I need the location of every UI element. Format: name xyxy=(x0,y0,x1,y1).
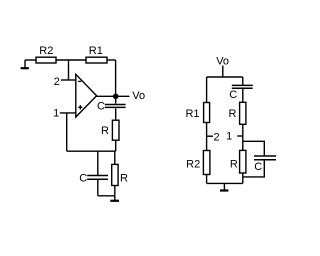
wire xyxy=(114,151,116,164)
op-amp U1 xyxy=(76,74,97,117)
wire xyxy=(222,66,224,78)
wire xyxy=(68,59,70,80)
svg-text:Vo: Vo xyxy=(132,90,145,102)
svg-text:R2: R2 xyxy=(39,45,53,57)
wire xyxy=(206,123,208,151)
node Vo junction xyxy=(113,94,119,100)
svg-text:C: C xyxy=(254,161,262,173)
wire xyxy=(242,77,244,85)
wire xyxy=(207,76,243,78)
resistor R1 xyxy=(204,103,210,123)
node 1 xyxy=(237,135,243,137)
resistor R1 xyxy=(86,57,107,63)
svg-text:C: C xyxy=(79,173,87,185)
wire xyxy=(98,195,115,197)
capacitor C xyxy=(232,85,253,88)
wire xyxy=(61,79,76,81)
wire xyxy=(115,96,117,103)
wire xyxy=(115,140,117,151)
svg-text:R1: R1 xyxy=(185,108,199,120)
wire xyxy=(67,150,116,152)
ground xyxy=(220,183,228,190)
wire xyxy=(242,89,244,103)
wire xyxy=(97,151,99,175)
svg-text:R: R xyxy=(120,172,128,184)
resistor R2 xyxy=(203,151,210,175)
wire xyxy=(107,59,116,61)
wire xyxy=(243,141,264,155)
wire xyxy=(207,182,243,184)
resistor R xyxy=(112,164,118,185)
wire xyxy=(206,77,208,103)
svg-text:C: C xyxy=(229,89,237,101)
resistor R xyxy=(240,150,246,173)
wire xyxy=(243,160,264,177)
wire xyxy=(115,60,117,96)
resistor R xyxy=(240,102,246,124)
svg-text:1: 1 xyxy=(53,108,59,120)
capacitor C xyxy=(87,176,108,180)
ground xyxy=(21,60,29,68)
wire xyxy=(114,186,116,201)
wire xyxy=(60,112,76,114)
wire xyxy=(115,108,117,120)
wire xyxy=(66,113,68,151)
wire xyxy=(206,175,208,184)
ground xyxy=(110,200,119,202)
wire xyxy=(56,59,86,61)
wire xyxy=(25,59,36,61)
svg-text:R: R xyxy=(230,158,238,170)
wire xyxy=(97,180,99,196)
svg-text:R1: R1 xyxy=(89,45,103,57)
svg-text:2: 2 xyxy=(54,76,60,88)
wire xyxy=(97,95,130,97)
capacitor C xyxy=(105,105,126,108)
svg-text:2: 2 xyxy=(213,131,219,143)
svg-text:R: R xyxy=(229,108,237,120)
capacitor C xyxy=(254,156,276,160)
svg-text:R: R xyxy=(101,125,109,137)
svg-text:1: 1 xyxy=(226,131,232,143)
svg-text:R2: R2 xyxy=(186,159,200,171)
node 2 xyxy=(207,135,213,137)
wire xyxy=(242,124,244,150)
svg-text:C: C xyxy=(97,101,105,113)
resistor R xyxy=(112,120,119,140)
resistor R2 xyxy=(36,57,56,63)
wire xyxy=(242,173,244,183)
